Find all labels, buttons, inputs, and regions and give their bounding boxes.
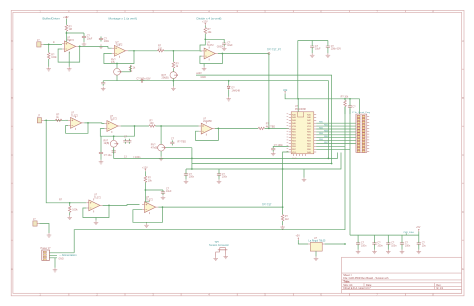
- node TP riser crosses L3: [282, 168, 284, 170]
- svg-text:PIC16F88: PIC16F88: [295, 108, 306, 111]
- wire cap drop from op5 loop: [100, 136, 102, 150]
- resistor R8 4k7 inline to IC: [258, 123, 275, 130]
- ground under J4: [53, 268, 58, 272]
- PWR_FLAG label: [404, 231, 415, 235]
- node op7 out: [108, 205, 110, 207]
- wire pot RV3 top stub: [172, 68, 174, 71]
- decoupling cap bank C14: [386, 241, 397, 247]
- capacitor C4 10uF: [222, 41, 233, 47]
- decoupling cap bank C16: [417, 241, 427, 247]
- long return wire: [74, 107, 345, 253]
- node R9 tap: [344, 98, 346, 100]
- wire op7 gnd stub: [95, 218, 97, 221]
- wire R9 stubs: [344, 99, 346, 114]
- wire feedback op3: [200, 54, 223, 64]
- resistor R7 inline row2: [149, 119, 155, 127]
- nest wire L3: [186, 153, 341, 170]
- wire long vertical to row3: [46, 120, 86, 203]
- ground under R2: [46, 67, 51, 71]
- IC U7 right pin stubs: [314, 115, 316, 153]
- wire op7 output to op8: [103, 204, 140, 207]
- node J2/long vertical: [45, 119, 47, 121]
- svg-text:100n: 100n: [361, 244, 367, 247]
- svg-text:Tension Connector: Tension Connector: [209, 244, 229, 247]
- IC U7 pin name texture: [292, 113, 312, 154]
- wire stub C16: [418, 235, 420, 250]
- ground under C12: [356, 250, 361, 254]
- capacitor C19 100n: [217, 172, 228, 179]
- svg-text:TL072: TL072: [67, 39, 74, 42]
- wire feedback loop op1: [58, 46, 80, 62]
- node TP junction: [282, 206, 284, 208]
- svg-text:R? 10k: R? 10k: [341, 95, 349, 98]
- power +12V stage3: [202, 20, 208, 25]
- IC U7 pin number marks: [287, 114, 289, 152]
- regulator U10 78L05: [309, 237, 327, 251]
- wire pot RV3 bottom to rail: [172, 79, 174, 87]
- svg-text:10uF: 10uF: [166, 190, 172, 193]
- wire LED to gnd: [228, 90, 230, 97]
- wire regulator output: [325, 243, 345, 245]
- wire pot RV2 top stub: [116, 65, 118, 68]
- ground under C17: [99, 160, 104, 164]
- op-amp U1A TL072: [62, 36, 78, 53]
- decoupling cap bank C13: [372, 241, 383, 247]
- svg-text:TP? TST_PT: TP? TST_PT: [267, 48, 281, 51]
- ground under C4: [222, 46, 227, 50]
- svg-text:E: E: [462, 267, 464, 271]
- trim caps pair: [123, 136, 131, 144]
- resistor R4 1k: [172, 62, 179, 68]
- ground under C6: [310, 53, 315, 57]
- ground under LED: [226, 97, 231, 101]
- wire RV5 wiper to nest: [166, 147, 192, 149]
- wire down to R2: [48, 44, 50, 52]
- svg-text:TL072: TL072: [71, 114, 78, 117]
- GND rail wire: [103, 81, 328, 159]
- svg-text:100n: 100n: [405, 244, 411, 247]
- node op4 out: [87, 122, 89, 124]
- resistor R1 1M: [65, 25, 72, 31]
- capacitor on rail drop left: [101, 81, 105, 86]
- wire op6 +in jog: [198, 125, 200, 127]
- ground under regulator: [314, 256, 319, 260]
- resistor R11 10k: [144, 176, 152, 182]
- svg-text:Title:: Title:: [343, 279, 350, 283]
- wire R2 to ground: [48, 59, 50, 67]
- node R10 tap: [69, 202, 71, 204]
- wire feedback op6: [196, 128, 219, 140]
- svg-text:A: A: [462, 39, 464, 43]
- node a12V rail joins L4: [331, 163, 333, 165]
- svg-text:1M: 1M: [69, 28, 72, 31]
- svg-text:Id: 1/1: Id: 1/1: [436, 287, 444, 290]
- wire bus IC to connector: [316, 123, 356, 143]
- ground under op3: [202, 67, 207, 71]
- svg-text:La Regul 78L05: La Regul 78L05: [309, 240, 327, 243]
- node op6 out: [218, 128, 220, 130]
- wire C18 to gnd: [185, 177, 187, 179]
- ground on L3 stub: [302, 178, 307, 182]
- potentiometer RV4: [104, 139, 119, 147]
- node C8 tap: [349, 98, 351, 100]
- potentiometer RV5 47k: [151, 144, 166, 152]
- resistor R3 100 series: [158, 45, 164, 52]
- decoupling cap bus: [350, 234, 419, 236]
- node regulator out joins riser: [344, 243, 346, 245]
- power +12V top of R1: [63, 16, 69, 19]
- svg-text:Buffer/Driver: Buffer/Driver: [43, 16, 60, 20]
- capacitor C17: [99, 151, 112, 157]
- svg-text:D: D: [11, 210, 13, 214]
- wire tap to pot RV4: [113, 136, 115, 140]
- decoupling cap bank C12: [356, 241, 367, 247]
- svg-text:Vdd: Vdd: [283, 89, 288, 92]
- svg-text:2k2: 2k2: [285, 218, 290, 221]
- svg-text:VDD: VDD: [307, 126, 312, 128]
- wire feedback op5: [100, 126, 134, 136]
- power +5V Vdd: [283, 89, 288, 94]
- wire Vdd to rail: [285, 94, 359, 115]
- node stage3 top: [204, 38, 206, 40]
- wire wiper drop joins nest: [191, 148, 193, 169]
- svg-text:TL072: TL072: [116, 44, 123, 47]
- svg-text:D: D: [462, 210, 464, 214]
- svg-text:VSS: VSS: [292, 126, 297, 128]
- title block: [342, 257, 462, 293]
- ground under C1: [82, 42, 87, 46]
- ground under C2: [99, 44, 104, 48]
- svg-text:E: E: [11, 267, 13, 271]
- connector J5 pin pads: [357, 115, 365, 152]
- ground under tension left: [213, 257, 218, 261]
- svg-text:100: 100: [150, 122, 155, 125]
- labels C5: [137, 77, 151, 80]
- wire R1 top stub: [65, 19, 67, 25]
- op-amp U4: [68, 112, 84, 130]
- wire into op2 +in: [108, 46, 112, 48]
- svg-text:VDD: VDD: [292, 152, 297, 154]
- capacitor C8 near connector: [348, 104, 356, 109]
- wire stub C13: [374, 235, 376, 250]
- bus feed horizontals at IC bottom: [316, 146, 350, 149]
- op-amp U6: [199, 117, 215, 135]
- decoupling cap bank C15: [400, 241, 411, 247]
- ground under C13: [372, 250, 377, 254]
- ground below RV3: [171, 86, 176, 90]
- svg-text:a12V: a12V: [196, 72, 202, 75]
- capacitor C18 100n: [184, 172, 195, 179]
- wire R5 down to +in: [200, 34, 205, 51]
- regulator pin stubs: [308, 243, 325, 245]
- svg-text:KiCad E.D.A. kicad 4.0.7: KiCad E.D.A. kicad 4.0.7: [343, 287, 371, 290]
- op-amp U3 TL072: [202, 41, 218, 60]
- connector J3 input row3: [33, 218, 40, 226]
- wire op4 output to op5: [84, 122, 104, 125]
- connector J1 input: [37, 39, 44, 47]
- ground under C16: [417, 250, 422, 254]
- wire rail to LED: [228, 81, 230, 85]
- wire +5V stub to bus: [418, 232, 420, 236]
- wire C17 to gnd: [100, 156, 102, 160]
- svg-text:File: CAR-PWR Rev Board - Tens: File: CAR-PWR Rev Board - Tension.sch: [343, 277, 389, 280]
- wire op5 output main row2: [121, 125, 149, 127]
- node L3 corner: [191, 168, 193, 170]
- node RV3/gnd rail: [173, 80, 175, 82]
- wire R3 to op3: [164, 50, 200, 52]
- ground under C19: [217, 179, 222, 183]
- ground under R12: [280, 225, 285, 229]
- nest wire L2 from RV4: [114, 147, 338, 158]
- wire op3 output to test point: [218, 53, 269, 55]
- border zone ticks right: [462, 69, 464, 240]
- ground under J3 wire: [47, 233, 52, 237]
- svg-text:1N4148: 1N4148: [232, 89, 241, 92]
- IC U7 left pin stubs: [289, 115, 291, 153]
- border zone ticks bottom: [69, 293, 406, 296]
- svg-text:LM1458: LM1458: [203, 120, 212, 123]
- node op5 out: [134, 125, 136, 127]
- resistor R trim 1k: [129, 65, 136, 71]
- svg-text:1k(B): 1k(B): [104, 142, 110, 145]
- op-amp U9: [142, 196, 158, 214]
- svg-text:C: C: [462, 153, 464, 157]
- svg-text:4k7 TBD: 4k7 TBD: [266, 125, 276, 128]
- wire +5V to regulator: [298, 240, 308, 244]
- wire RV5 bottom to gnd: [160, 151, 162, 157]
- wire J4 gnd drop: [54, 258, 56, 268]
- svg-text:A: A: [11, 39, 13, 43]
- tension connector symbol: [216, 248, 228, 257]
- resistor R9 pullup: [341, 95, 349, 106]
- wire R8 to IC pin: [265, 127, 289, 129]
- wire RV2 wiper to trim resistor: [122, 71, 131, 73]
- node LED tap: [228, 80, 230, 82]
- svg-text:C L K: C L K: [292, 158, 297, 160]
- svg-text:+12V: +12V: [142, 166, 148, 169]
- op-amp U2A TL072: [112, 41, 128, 58]
- svg-text:+12V: +12V: [202, 20, 208, 23]
- ground under op1: [67, 67, 72, 71]
- wire cap drop at 219: [218, 169, 220, 172]
- svg-text:TL072: TL072: [207, 44, 214, 47]
- IC bottom pin stubs: [294, 154, 306, 156]
- node op5 fb / pot tap: [113, 135, 115, 137]
- ground under RV5: [159, 157, 164, 161]
- svg-text:+5V: +5V: [416, 226, 421, 229]
- wire feedback op7: [83, 205, 109, 217]
- svg-text:R? TBD: R? TBD: [178, 141, 187, 144]
- svg-text:C? 100n 63V: C? 100n 63V: [137, 77, 151, 80]
- svg-text:47k(B): 47k(B): [151, 146, 158, 149]
- IC U7 notch box: [298, 112, 304, 117]
- LED D1 from rail: [227, 85, 240, 92]
- wire tap to cap C11: [145, 189, 163, 191]
- +12V rail wire: [196, 75, 332, 163]
- wire tap down to pot RV2: [116, 64, 118, 66]
- op-amp U8: [86, 194, 102, 213]
- svg-text:TL072: TL072: [94, 196, 101, 199]
- wire stub C15: [401, 235, 403, 250]
- node op3 out: [222, 53, 224, 55]
- capacitor C9 at IC lower left: [271, 144, 283, 152]
- border zone ticks top: [69, 10, 406, 12]
- wire J2 to op4: [44, 119, 65, 121]
- node op2 out: [133, 50, 135, 52]
- wire J1 to opamp +in: [43, 43, 62, 45]
- J4 pin wires: [49, 253, 74, 258]
- wire R7 to op6: [155, 125, 198, 127]
- wire trim resistor stub: [130, 65, 132, 71]
- svg-text:GNDA: GNDA: [217, 45, 224, 48]
- svg-text:10uF: 10uF: [227, 44, 233, 47]
- ground under C14: [386, 250, 391, 254]
- resistor R2 100k: [47, 53, 57, 60]
- ground under op8: [144, 223, 149, 227]
- wire TP rise to IC bottom: [283, 152, 289, 207]
- wire op1 V- stub to gnd: [68, 52, 70, 67]
- node R11/cap tap: [145, 189, 147, 191]
- wire op4 +in jog: [65, 119, 68, 121]
- svg-text:20k(B): 20k(B): [162, 77, 169, 80]
- wire C8 stubs: [349, 99, 351, 114]
- wire R10 stubs: [69, 203, 71, 216]
- capacitor C1 10uF: [82, 35, 93, 41]
- svg-text:100n: 100n: [377, 244, 383, 247]
- svg-text:Power J?: Power J?: [41, 247, 52, 250]
- svg-text:100n: 100n: [391, 244, 397, 247]
- wire op6 output to IC: [215, 127, 258, 129]
- svg-text:B: B: [11, 96, 13, 100]
- wire op8 gnd stub: [146, 221, 148, 224]
- capacitor C2 100n: [99, 37, 110, 44]
- connector J5 header body: [352, 111, 371, 152]
- wire R5 top stub: [204, 25, 206, 27]
- svg-text:TP? TST: TP? TST: [262, 204, 272, 207]
- wire C19 to gnd: [218, 177, 220, 179]
- wire opamp1 output to stage2: [78, 45, 108, 47]
- wire RV5 top stub: [160, 140, 162, 144]
- node junction R1/cap: [66, 32, 68, 34]
- wire down to RV5: [160, 126, 162, 140]
- svg-text:100: 100: [158, 47, 163, 50]
- ground under R10: [67, 215, 72, 219]
- wire op8 output to TP: [158, 206, 282, 208]
- svg-text:10uF: 10uF: [315, 47, 321, 50]
- svg-text:C? 10u: C? 10u: [104, 154, 112, 157]
- wire C9 to IC pin: [273, 145, 289, 147]
- node L2 crossing: [191, 158, 193, 160]
- op-amp U5: [104, 115, 120, 133]
- wire feedback op8: [133, 207, 163, 222]
- node junction input/R2: [48, 44, 50, 46]
- svg-text:100k: 100k: [72, 209, 78, 212]
- tension connector label: [209, 241, 229, 247]
- capacitor C5 100n inline on rail: [140, 79, 145, 83]
- resistor R5 10k: [204, 27, 212, 33]
- node RV5 tap: [160, 125, 162, 127]
- trim cap near RV5: [170, 137, 175, 145]
- cap bus riser: [349, 109, 351, 235]
- wire down to R4: [172, 51, 174, 62]
- ground under C15: [400, 250, 405, 254]
- connector J2 input row2: [37, 115, 44, 123]
- power +5V at bus right: [416, 226, 421, 232]
- wire op2 output: [128, 50, 157, 52]
- capacitor inline on RV4 drop: [112, 149, 116, 154]
- power connector J4: [41, 247, 52, 260]
- svg-text:100n: 100n: [222, 176, 228, 179]
- wire stub below L3: [303, 169, 305, 178]
- power +12V row3: [142, 166, 148, 171]
- node op8 out: [162, 206, 164, 208]
- capacitor C6 10uF: [310, 44, 321, 50]
- wire to cap C4: [205, 39, 224, 41]
- ground under C7: [326, 53, 331, 57]
- node op3 drop joins row2: [268, 128, 270, 130]
- svg-text:+12V: +12V: [63, 16, 69, 19]
- svg-text:100n 63V: 100n 63V: [331, 47, 342, 50]
- wire pot RV2 bottom to gnd rail: [116, 75, 118, 81]
- IC U7 microcontroller body: [291, 105, 314, 154]
- svg-text:J? In_Circuit_Prog: J? In_Circuit_Prog: [352, 111, 371, 114]
- connector J5 right pin stubs: [367, 117, 369, 152]
- ground under op7: [94, 220, 99, 224]
- node Vdd/IC drop: [297, 98, 299, 100]
- wire R4 to pot RV3: [172, 67, 174, 69]
- svg-text:100k: 100k: [51, 56, 57, 59]
- svg-text:Montage x 1 (a verif): Montage x 1 (a verif): [109, 16, 137, 20]
- resistor R6 inline row2: [55, 113, 61, 121]
- resistor R12 2k2: [281, 215, 289, 221]
- net labels on bus: [319, 122, 329, 144]
- node GND rail joins L2: [328, 158, 330, 160]
- svg-text:B: B: [462, 96, 464, 100]
- ground under C9: [271, 152, 276, 156]
- test point TP1: [267, 48, 281, 54]
- potentiometer RV3 20k: [162, 72, 179, 80]
- capacitor C7 100n 63V: [326, 44, 342, 50]
- ground under tension right: [223, 255, 228, 259]
- nest wire L4: [192, 163, 332, 165]
- ground under C18: [184, 179, 189, 183]
- ground under rail cap: [101, 87, 106, 91]
- svg-text:GND: GND: [59, 259, 64, 261]
- wire cap drop at 186: [185, 169, 187, 172]
- wire R11 chain down: [145, 171, 149, 202]
- wire stub C12: [357, 235, 359, 250]
- wire junction to cap C1: [66, 33, 84, 42]
- svg-text:100n: 100n: [189, 176, 195, 179]
- svg-text:TL072: TL072: [146, 199, 153, 202]
- wire J3 out: [40, 224, 50, 234]
- wire R1 bottom to opamp V+: [65, 31, 67, 41]
- node output junction op1: [79, 46, 81, 48]
- svg-text:PWR_FLAG: PWR_FLAG: [404, 231, 415, 234]
- resistor R10 at op7 input: [59, 198, 78, 212]
- wire op3 out down to IC row: [268, 54, 270, 129]
- svg-text:100n: 100n: [104, 40, 110, 43]
- svg-text:GND: GND: [201, 76, 207, 79]
- potentiometer RV2: [111, 59, 122, 76]
- ground under C11: [161, 195, 166, 199]
- wire top cluster: [298, 41, 328, 99]
- svg-text:Divide x 4 (a verif): Divide x 4 (a verif): [197, 16, 222, 20]
- capacitor C11 10uF: [161, 187, 172, 195]
- svg-text:10u: 10u: [422, 244, 427, 247]
- node junction RV3 chain: [173, 50, 175, 52]
- node feedback/pot tap: [116, 63, 118, 65]
